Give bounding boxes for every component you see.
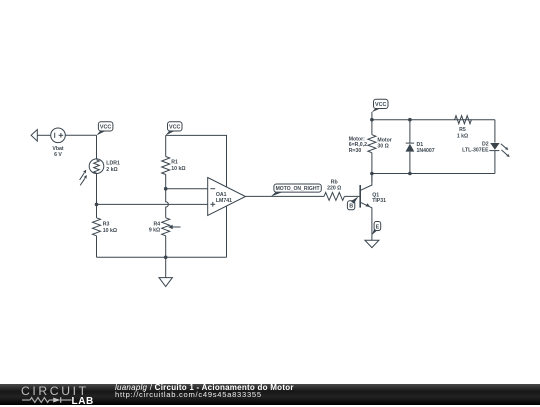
svg-text:VCC: VCC <box>169 125 180 131</box>
logo diode <box>53 397 60 402</box>
transistor Q1 <box>360 174 386 235</box>
svg-text:R1: R1 <box>171 160 178 166</box>
svg-text:2 kΩ: 2 kΩ <box>106 167 117 173</box>
node E (flag on emitter) <box>372 222 381 236</box>
svg-text:VCC: VCC <box>375 102 386 108</box>
footer url <box>115 390 262 399</box>
svg-text:LM741: LM741 <box>216 198 232 204</box>
wire top rail <box>372 119 495 121</box>
potentiometer R4 <box>149 189 181 258</box>
node junction bottom <box>164 255 168 259</box>
wire ground to Vbat <box>37 134 50 136</box>
wire collector drop <box>371 174 373 182</box>
node VCC (flag 1) <box>96 122 113 136</box>
wire op-amp output <box>246 195 325 197</box>
logo wire 3 <box>61 399 72 401</box>
op-amp OA1 <box>208 178 246 216</box>
svg-text:Vbat: Vbat <box>52 146 64 152</box>
wire bottom rail <box>97 256 227 258</box>
footer title <box>115 383 294 392</box>
wire op-amp bottom supply to ground rail <box>226 206 228 257</box>
ground (left of Vbat) <box>31 130 37 142</box>
svg-text:LTL-307EE: LTL-307EE <box>462 148 489 154</box>
node VCC (flag 2) <box>166 122 183 136</box>
node B junction (R1 bottom) <box>164 187 168 191</box>
svg-text:OA1: OA1 <box>216 192 227 198</box>
LED D2 <box>462 142 510 174</box>
svg-text:TIP31: TIP31 <box>372 198 386 204</box>
svg-text:LDR1: LDR1 <box>106 161 120 167</box>
wire VCC rail to op-amp top supply <box>166 135 227 187</box>
ground (main) <box>159 278 172 287</box>
svg-text:220 Ω: 220 Ω <box>327 186 341 192</box>
resistor Rb <box>324 180 344 201</box>
node A junction <box>95 203 99 207</box>
CircuitLab logo <box>21 384 89 398</box>
node motor bottom junction <box>370 172 374 176</box>
node VCC (flag 3, motor) <box>372 99 388 112</box>
node D1 top junction <box>408 118 412 122</box>
svg-text:E: E <box>376 225 380 231</box>
logo wire 2 <box>49 399 53 401</box>
voltage source Vbat <box>51 128 66 158</box>
wire Vbat to VCC node <box>65 134 96 136</box>
ground (emitter) <box>365 240 379 247</box>
node D1 bottom junction <box>408 172 412 176</box>
svg-text:B: B <box>349 204 353 210</box>
node motor top junction <box>370 118 374 122</box>
wire right edge down to LED <box>494 120 496 143</box>
node B (flag on base) <box>347 197 358 210</box>
svg-text:1 kΩ: 1 kΩ <box>457 133 468 139</box>
resistor R3 <box>93 204 118 257</box>
wire R1 junction to op-amp - input <box>166 188 208 190</box>
svg-text:R3: R3 <box>103 222 110 228</box>
svg-text:10 kΩ: 10 kΩ <box>103 228 117 234</box>
resistor R1 <box>162 135 186 188</box>
wire node A to op-amp + input (with hop) <box>97 203 208 205</box>
resistor R5 <box>455 116 472 140</box>
wire VCC to motor rail <box>371 112 373 120</box>
node MOTO_ON_RIGHT (flag) <box>271 184 322 197</box>
diode D1 <box>406 120 435 174</box>
svg-text:R5: R5 <box>459 127 466 133</box>
svg-text:1N4007: 1N4007 <box>417 148 435 154</box>
svg-text:6 V: 6 V <box>54 152 62 158</box>
logo resistor <box>30 397 49 402</box>
wire bottom motor rail <box>372 173 495 175</box>
logo wire <box>22 399 30 401</box>
svg-text:10 kΩ: 10 kΩ <box>171 166 185 172</box>
wire Rb to Q1 base <box>344 195 360 197</box>
svg-text:30 Ω: 30 Ω <box>377 143 388 149</box>
svg-text:VCC: VCC <box>100 125 111 131</box>
svg-text:Rb: Rb <box>331 180 338 186</box>
svg-text:R=30: R=30 <box>349 148 362 154</box>
wire junction to ground <box>165 257 167 277</box>
svg-text:9 kΩ: 9 kΩ <box>149 228 160 234</box>
wire emitter to ground <box>371 235 373 240</box>
LDR LDR1 <box>80 159 120 186</box>
motor M (resistor symbol) <box>349 120 392 174</box>
svg-text:R4: R4 <box>154 221 161 227</box>
wire LDR1 to node A <box>96 173 98 204</box>
wire VCC node down to LDR1 <box>96 135 98 159</box>
svg-text:MOTO_ON_RIGHT: MOTO_ON_RIGHT <box>276 186 320 192</box>
footer bar <box>0 384 540 405</box>
